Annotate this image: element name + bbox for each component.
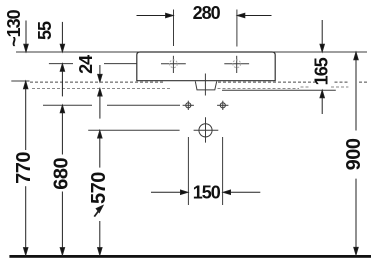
tap hole right: crosshair with dashed circle [224, 56, 249, 73]
dimension 165: lower arrow pointing up [320, 90, 324, 97]
tap hole left: crosshair with dashed circle [161, 56, 186, 73]
siphon outlet: large circle with crosshair [194, 117, 219, 142]
svg-text:150: 150 [193, 182, 221, 202]
wire: extension line 280 left (above left tap hole) [173, 10, 175, 47]
wire: hidden dashed line at basin bottom level, right of drain [218, 81, 318, 83]
wire: extension line at basin underside (770-level) [11, 80, 29, 82]
ground: floor line (thick) [9, 255, 371, 258]
dimension 770: vertical dimension line with arrows both ends [24, 81, 28, 88]
wire: extension line at mounting-hole height (680-level), right segment [107, 104, 180, 106]
svg-text:24: 24 [76, 55, 96, 74]
wire: extension line at 55-level, left segment [49, 63, 73, 65]
dimension 55: upper arrow pointing down to rim line [61, 22, 63, 45]
wire: bracket edge line under basin, right side [222, 89, 336, 91]
wire: hidden dashed line at basin bottom level, left segment [30, 81, 164, 83]
dimension 165: upper arrow pointing down to rim line [321, 20, 323, 45]
dimension 900: vertical dimension line with arrows both ends [354, 52, 358, 59]
dimension ~130: upper arrow pointing down to rim line [25, 21, 27, 46]
washbasin body outline (front view) [137, 52, 275, 81]
mounting hole left: small circle with crosshair [183, 101, 194, 110]
wire: extension line 150 left (below left mounting hole) [187, 137, 189, 205]
dimension 150: left arrow pointing right [151, 191, 182, 193]
dimension 24: lower arrow pointing up [98, 89, 102, 96]
wire: extension line 280 right (above right tap hole) [236, 10, 238, 47]
wire: hidden dashed line at basin bottom level, far right [359, 81, 369, 83]
wire: wall / rim reference line (top, full width) [16, 51, 367, 53]
dimension 570: vertical dimension line with arrows both ends [98, 131, 102, 138]
wire: extension line at mounting-hole height (680-level), left segment [43, 104, 92, 106]
dimension 280: right arrow pointing left [241, 15, 272, 17]
dimension 55: lower arrow pointing up [60, 64, 64, 71]
drain center line [204, 74, 206, 96]
svg-text:55: 55 [35, 21, 55, 40]
wire: hidden dashed line lower, short right segment 1 [301, 86, 311, 88]
wire: hidden dashed line lower (bracket underside), left segment [32, 88, 172, 90]
mounting hole right: small circle with crosshair [217, 101, 228, 110]
wire: extension line 150 right (below right mounting hole) [222, 137, 224, 205]
svg-text:770: 770 [13, 152, 35, 184]
svg-text:165: 165 [312, 57, 332, 85]
wire: extension line at 55-level, right segment to basin edge [104, 63, 137, 65]
wire: hidden dashed line at basin bottom level, right of 165 label [335, 81, 350, 83]
svg-text:680: 680 [51, 157, 73, 189]
wire: extension line at drain height (570-level) [88, 129, 179, 131]
dimension 280: left arrow pointing right [137, 15, 168, 17]
leader arrow pointing NE at 570 label [96, 206, 103, 213]
svg-text:900: 900 [343, 138, 365, 170]
dimension 24: upper arrow pointing down [99, 65, 101, 75]
wire: hidden dashed line lower, short right segment 2 [331, 86, 348, 88]
svg-text:280: 280 [193, 3, 221, 23]
svg-text:570: 570 [88, 172, 110, 204]
dimension 680: vertical dimension line with arrows both ends [60, 105, 64, 112]
dimension 150: right arrow pointing left [230, 191, 261, 193]
drain outlet trapezoid under basin [195, 81, 216, 90]
wire: hidden dashed line lower, right of drain [218, 88, 300, 90]
svg-text:~130: ~130 [4, 9, 24, 47]
